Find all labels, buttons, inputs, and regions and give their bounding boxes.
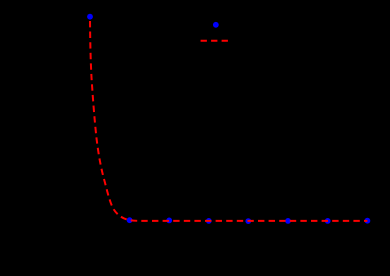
marker 7	[325, 218, 331, 224]
marker 5	[245, 218, 251, 224]
marker 6	[285, 218, 291, 224]
marker 3	[166, 218, 172, 224]
marker 8	[365, 218, 371, 224]
marker 2	[127, 217, 133, 223]
legend dashed red line	[201, 40, 229, 42]
marker 1	[87, 14, 93, 20]
legend marker (blue dot)	[213, 22, 219, 28]
red dashed fit curve	[90, 17, 367, 221]
marker 4	[206, 218, 212, 224]
